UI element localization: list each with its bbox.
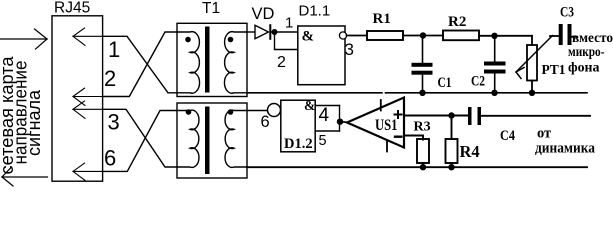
wire T1 to VD [247, 31, 255, 33]
resistor R1 [367, 31, 403, 40]
T1 upper secondary polarity dot [228, 37, 234, 43]
transformer T1 upper box [177, 23, 247, 96]
T1 lower primary winding [177, 110, 199, 167]
capacitor C4 [468, 107, 472, 125]
arrow inside RJ45 pin6 [73, 163, 103, 180]
US1 plus sign [395, 111, 402, 118]
wire VD to D1.1 pin1 [271, 31, 298, 33]
svg-text:фона: фона [568, 60, 600, 75]
svg-text:6: 6 [261, 113, 270, 131]
D1.1 output bubble [339, 32, 346, 39]
svg-text:3: 3 [108, 110, 120, 135]
wire to D1.1 pin2 [275, 32, 298, 50]
wire D1.2 pin5 [315, 130, 339, 132]
svg-text:C2: C2 [471, 74, 485, 90]
wire pin3 to T1 (crossover) [103, 109, 178, 167]
node R4 tap [448, 112, 454, 118]
incoming signal arrow [0, 29, 47, 49]
capacitor C2 [484, 36, 506, 93]
svg-text:T1: T1 [202, 0, 220, 17]
svg-text:&: & [302, 29, 315, 45]
svg-text:1: 1 [285, 15, 293, 32]
wire pin1 to T1 (crossover) [103, 36, 178, 93]
svg-text:5: 5 [319, 133, 327, 149]
svg-text:2: 2 [104, 66, 116, 91]
wire node to US1 output [340, 121, 349, 124]
arrow inside RJ45 pin2 [73, 88, 103, 105]
D1.2 output bubble [268, 104, 281, 117]
svg-text:D1.2: D1.2 [284, 136, 313, 152]
svg-text:US1: US1 [375, 117, 398, 134]
node B (R2/C2) [491, 33, 497, 39]
svg-text:3: 3 [345, 40, 354, 59]
node C1/rail [419, 90, 425, 96]
capacitor C1 [412, 36, 433, 93]
resistor R4 [451, 116, 453, 140]
T1 upper secondary winding [224, 32, 247, 94]
resistor R3 [417, 139, 429, 163]
wire R2 to PT1 [479, 35, 532, 37]
node at VD output [272, 29, 278, 35]
svg-text:6: 6 [104, 146, 116, 171]
arrow inside RJ45 pin3 [73, 101, 103, 118]
svg-text:C4: C4 [500, 128, 515, 144]
node C2/rail [491, 90, 497, 96]
svg-text:C1: C1 [438, 75, 452, 91]
wire tying pins 4 and 5 [339, 106, 341, 132]
T1 upper core [205, 27, 210, 93]
potentiometer PT1 [527, 36, 537, 93]
node pins45 [337, 119, 343, 125]
diode VD [255, 25, 269, 39]
T1 upper primary winding [177, 32, 200, 94]
svg-text:2: 2 [277, 54, 286, 71]
svg-text:R2: R2 [448, 14, 466, 30]
wire C4 to speaker [481, 115, 590, 117]
wire D1.2 pin4 [315, 105, 339, 107]
T1 lower primary polarity dot [186, 109, 192, 115]
resistor R2 [443, 31, 479, 41]
wire pin2 to T1 (crossover) [103, 32, 178, 97]
svg-text:сигнала: сигнала [24, 89, 44, 156]
arrow inside RJ45 pin1 [73, 28, 103, 45]
US1 top power pin [380, 100, 382, 111]
wire US1 plus input to C4 [404, 115, 468, 117]
svg-text:от: от [537, 126, 551, 142]
T1 lower secondary winding [225, 110, 247, 167]
op-amp US1 [347, 98, 404, 148]
US1 bottom power pin [386, 141, 388, 152]
svg-text:RJ45: RJ45 [54, 0, 90, 17]
svg-text:динамика: динамика [535, 141, 596, 157]
svg-text:R1: R1 [373, 11, 391, 27]
svg-text:вместо: вместо [572, 30, 613, 45]
svg-text:микро-: микро- [568, 44, 605, 59]
US1 minus sign [395, 135, 401, 137]
wire US1 minus input to R3 [404, 136, 423, 140]
svg-text:D1.1: D1.1 [299, 3, 331, 20]
T1 lower secondary polarity dot [228, 109, 234, 115]
svg-text:1: 1 [108, 37, 120, 62]
wire D1.1 out to R1 [347, 35, 367, 37]
node A (R1/R2/C1) [420, 32, 426, 38]
svg-text:R4: R4 [460, 142, 480, 161]
gate D1.1 body [298, 26, 345, 85]
svg-text:&: & [304, 98, 315, 113]
svg-text:R3: R3 [414, 120, 431, 135]
node R3/rail [420, 164, 426, 170]
transformer T1 lower box [177, 103, 247, 178]
svg-text:PT1: PT1 [542, 62, 566, 77]
connector RJ45 body [52, 16, 103, 181]
node R4/rail [448, 164, 454, 170]
top ground rail [247, 92, 382, 94]
bottom ground rail [247, 166, 587, 168]
svg-text:VD: VD [252, 5, 275, 23]
PT1 wiper arrow [516, 36, 553, 79]
node PT1/rail [529, 90, 535, 96]
svg-text:4: 4 [319, 105, 330, 126]
wire T1 lower secondary to D1.2 output [247, 110, 268, 112]
T1 upper primary polarity dot [185, 37, 191, 43]
wire pin6 to T1 (crossover) [103, 111, 178, 172]
outgoing signal arrow [2, 167, 48, 186]
wire R1 to R2 [403, 35, 443, 37]
svg-text:C3: C3 [560, 5, 574, 21]
capacitor C3 [550, 35, 559, 37]
gate D1.2 body [281, 100, 315, 152]
T1 lower core [205, 107, 210, 175]
